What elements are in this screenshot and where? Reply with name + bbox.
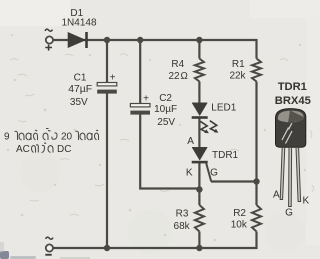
wire gate horizontal to R1/R2 node (211, 180, 257, 182)
resistor R3 (195, 205, 204, 232)
input terminal bottom (45, 237, 53, 256)
svg-text:R3: R3 (176, 209, 189, 220)
svg-text:25V: 25V (157, 117, 175, 128)
wire R2 bottom to bottom rail corner (199, 232, 256, 249)
wire C2 bottom to K node (140, 115, 199, 189)
wire C1 branch top (106, 40, 108, 83)
svg-text:R1: R1 (232, 59, 245, 70)
svg-text:G: G (210, 168, 218, 179)
wire right branch: top corner down to R1 (255, 39, 257, 59)
svg-text:AC: AC (16, 144, 30, 155)
svg-text:+: + (143, 94, 149, 105)
node junction bottom C1 (104, 245, 110, 251)
wire R3 bottom to rail (198, 232, 200, 249)
transistor package BRX45 body (276, 109, 306, 148)
svg-text:C1: C1 (74, 73, 87, 84)
input terminal top (45, 29, 53, 50)
node junction top C2 (137, 37, 143, 43)
thyristor TDR1 (192, 147, 212, 181)
svg-text:R2: R2 (233, 208, 246, 219)
wire C1 branch bottom (106, 94, 108, 249)
svg-text:10k: 10k (231, 220, 248, 231)
svg-text:TDR1: TDR1 (212, 150, 239, 161)
svg-text:47µF: 47µF (68, 84, 92, 95)
svg-text:A: A (187, 136, 194, 147)
wire C2 branch top (139, 40, 141, 104)
node junction top R4 (196, 37, 202, 43)
node junction top C1 (104, 37, 110, 43)
svg-text:G: G (285, 207, 293, 218)
wire R1 bottom to gate junction and on to R2 (255, 82, 257, 206)
wire R4 to LED1 (198, 82, 200, 104)
svg-text:+: + (110, 73, 116, 84)
svg-text:22k: 22k (229, 71, 246, 82)
wire LED1 to TDR1 anode (198, 119, 200, 148)
wire top rail (53, 39, 256, 41)
node junction bottom R3 (196, 245, 202, 251)
svg-text:35V: 35V (70, 97, 88, 108)
node junction gate/R1/R2 (253, 178, 259, 184)
Thai caption line 2: AC (or) DC (16, 143, 71, 155)
svg-text:R4: R4 (171, 59, 184, 70)
svg-text:BRX45: BRX45 (275, 95, 311, 107)
svg-text:1N4148: 1N4148 (61, 18, 96, 29)
svg-text:K: K (186, 168, 193, 179)
svg-text:9: 9 (4, 132, 10, 143)
capacitor C2 (130, 94, 150, 115)
node junction K (196, 186, 202, 192)
LED1 emission arrows (200, 121, 216, 132)
svg-text:K: K (302, 196, 309, 207)
svg-text:C2: C2 (159, 93, 172, 104)
svg-text:68k: 68k (174, 221, 191, 232)
svg-text:A: A (273, 190, 280, 201)
svg-text:10µF: 10µF (154, 104, 177, 115)
svg-text:20: 20 (61, 132, 73, 143)
resistor R2 (252, 205, 261, 232)
wire TDR1 cathode down through R3 node (198, 163, 200, 205)
svg-text:TDR1: TDR1 (278, 81, 307, 93)
resistor R4 (195, 59, 204, 82)
svg-text:DC: DC (57, 144, 71, 155)
Thai caption line 1: 9 (volts) to 20 (volts) (4, 129, 99, 143)
package legs (280, 147, 300, 206)
wire bottom rail (53, 247, 199, 249)
svg-text:LED1: LED1 (211, 103, 236, 114)
svg-text:22 Ω: 22 Ω (168, 71, 188, 82)
LED LED1 (192, 103, 208, 119)
capacitor C1 (97, 73, 117, 94)
wire R4 branch (198, 40, 200, 59)
diode D1 (68, 32, 88, 48)
resistor R1 (252, 59, 261, 82)
